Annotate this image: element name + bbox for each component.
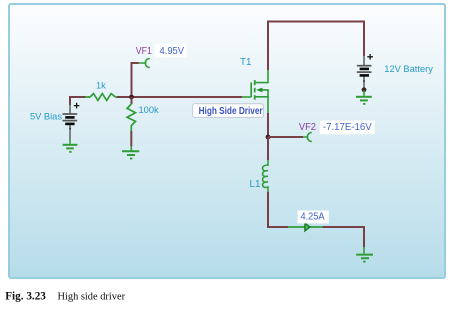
- transistor T1 MOSFET: [242, 70, 268, 113]
- svg-text:L1: L1: [250, 179, 261, 190]
- label 100k: [139, 105, 160, 115]
- wire node A down to resistor R2: [131, 97, 133, 104]
- probe VF1 tip: [139, 59, 150, 68]
- current probe 4.25A: [288, 223, 322, 231]
- svg-text:4.95V: 4.95V: [160, 46, 185, 57]
- svg-text:1k: 1k: [96, 81, 106, 91]
- battery V2 12V: [357, 54, 373, 88]
- ground below battery V1: [63, 140, 78, 153]
- label 1k: [96, 81, 106, 91]
- label L1: [250, 179, 261, 190]
- svg-text:T1: T1: [240, 57, 251, 68]
- svg-text:Fig. 3.23: Fig. 3.23: [5, 291, 46, 303]
- label box High Side Driver: [193, 104, 264, 118]
- wire inductor L1 to current probe: [268, 192, 288, 227]
- wire drain of T1 to battery V2: [268, 22, 364, 71]
- wire battery V1 top to resistor R1: [70, 97, 86, 105]
- junction dot below battery V2: [362, 87, 367, 92]
- value 4.25A: [298, 211, 329, 224]
- wire source of T1 to node B: [267, 113, 269, 137]
- svg-text:High side driver: High side driver: [58, 292, 126, 303]
- resistor R2 100k: [127, 104, 135, 131]
- svg-text:12V Battery: 12V Battery: [384, 64, 433, 74]
- svg-text:5V Bias: 5V Bias: [30, 112, 62, 122]
- wire node B to probe VF2: [268, 136, 303, 138]
- label T1: [240, 57, 251, 68]
- label 12V Battery: [384, 64, 433, 74]
- battery V1 5V Bias: [63, 103, 80, 140]
- label VF2: [299, 122, 316, 133]
- label 5V Bias: [30, 112, 62, 122]
- wire resistor R2 to ground: [130, 131, 132, 146]
- wire current probe to ground: [323, 227, 364, 247]
- caption: [5, 291, 125, 303]
- wire node B to inductor L1: [267, 137, 269, 160]
- node A junction dot: [129, 95, 134, 100]
- value 4.95V: [155, 44, 187, 58]
- wire resistor R1 to node A: [117, 96, 132, 98]
- svg-text:-7.17E-16V: -7.17E-16V: [323, 122, 372, 133]
- ground below resistor R2: [122, 146, 139, 159]
- resistor R1 1k: [85, 94, 117, 101]
- svg-text:4.25A: 4.25A: [301, 212, 325, 223]
- label VF1: [136, 46, 152, 57]
- inductor L1: [263, 160, 268, 191]
- wire node A to gate of T1: [132, 96, 243, 98]
- svg-text:100k: 100k: [139, 105, 160, 115]
- svg-text:High Side Driver: High Side Driver: [199, 106, 263, 117]
- probe VF2 tip: [303, 133, 312, 142]
- svg-text:VF1: VF1: [136, 46, 152, 57]
- node B junction dot: [266, 135, 271, 140]
- ground lower right: [356, 247, 373, 262]
- value -7.17E-16V: [320, 121, 375, 135]
- svg-text:VF2: VF2: [299, 122, 316, 133]
- ground below battery V2: [356, 90, 372, 105]
- wire node A up to probe VF1: [132, 63, 139, 97]
